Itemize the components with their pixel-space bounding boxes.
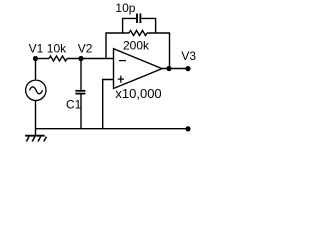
svg-text:C1: C1 [66,97,82,111]
svg-text:200k: 200k [123,38,150,52]
svg-text:10k: 10k [47,42,67,56]
svg-text:x10,000: x10,000 [115,86,161,101]
svg-text:V1: V1 [29,42,44,56]
svg-text:V2: V2 [78,42,93,56]
svg-text:10p: 10p [115,1,135,15]
svg-text:V3: V3 [181,49,196,63]
